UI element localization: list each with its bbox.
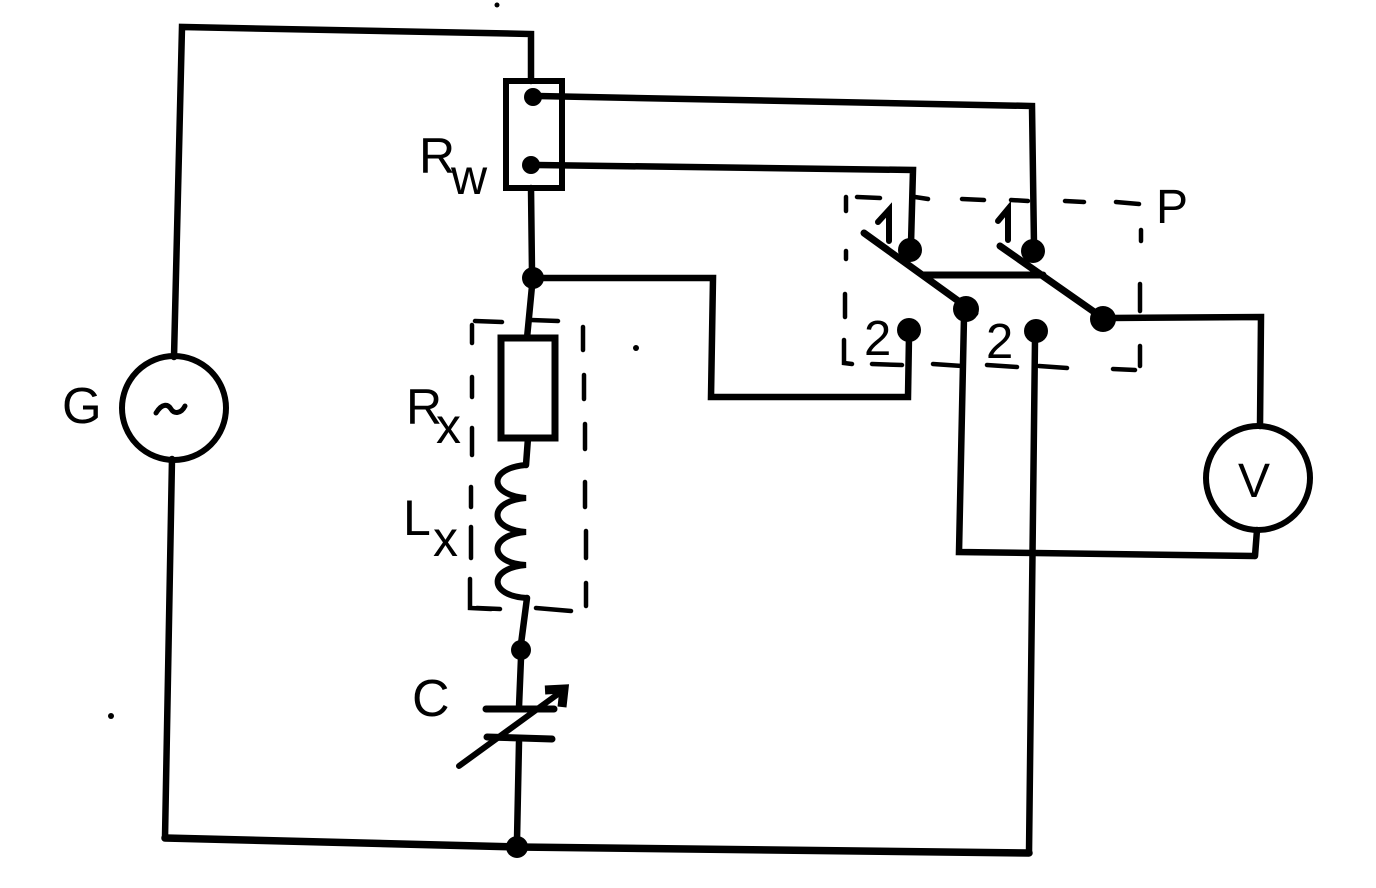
dashed box switch block P bbox=[844, 197, 1141, 370]
svg-text:V: V bbox=[1238, 455, 1270, 508]
svg-text:w: w bbox=[450, 149, 488, 205]
capacitor C bottom plate bbox=[487, 737, 552, 739]
switch S2 pin 1 label bbox=[998, 209, 1008, 240]
speck middle bbox=[633, 345, 639, 351]
speck top bbox=[495, 3, 500, 8]
voltmeter V bbox=[1206, 426, 1310, 530]
wire top loop from G to Rw bbox=[174, 27, 531, 357]
wire S1 common to V low side bbox=[959, 317, 1254, 556]
wire left side G to bottom rail bbox=[165, 459, 172, 838]
capacitor C variable arrow bbox=[459, 689, 564, 766]
svg-text:x: x bbox=[433, 511, 458, 567]
switch S2 blade bbox=[1000, 246, 1110, 323]
node B junction dot bbox=[511, 640, 531, 660]
wire Rw tap2 to switch P left pin 1 bbox=[537, 165, 913, 244]
svg-text:P: P bbox=[1156, 181, 1188, 234]
svg-text:2: 2 bbox=[986, 315, 1013, 369]
svg-text:R: R bbox=[419, 128, 455, 184]
switch S1 pin 1 label bbox=[878, 210, 889, 241]
switch S1 blade bbox=[864, 233, 975, 313]
svg-text:L: L bbox=[403, 490, 431, 546]
svg-text:2: 2 bbox=[864, 312, 891, 366]
potentiometer Rw bbox=[506, 81, 562, 188]
label G bbox=[62, 377, 102, 434]
switch S1 pin 2 label bbox=[864, 312, 891, 366]
Rw tap 1 dot bbox=[524, 88, 542, 106]
svg-text:C: C bbox=[412, 670, 450, 728]
label Lx bbox=[403, 490, 458, 567]
wire node A to switch P left pin 2 bbox=[541, 278, 909, 397]
switch S1 pin 2 dot bbox=[897, 318, 921, 342]
label C bbox=[412, 670, 450, 728]
wire Rw tap1 to switch P right pin 1 bbox=[538, 96, 1034, 245]
wire S2 pin 2 to bottom rail bbox=[1029, 340, 1035, 853]
wire Rw bottom to node A bbox=[531, 188, 532, 272]
wire capacitor C to bottom rail bbox=[517, 742, 519, 840]
bottom rail junction dot bbox=[506, 836, 528, 858]
capacitor C top plate bbox=[486, 706, 554, 713]
inductor Lx bbox=[498, 465, 528, 598]
wire Rx to Lx bbox=[526, 438, 528, 465]
switch S2 common dot bbox=[1090, 306, 1116, 332]
resistor Rx bbox=[501, 338, 555, 438]
switch S2 pin 2 label bbox=[986, 315, 1013, 369]
wire voltmeter V to low side wire bbox=[1255, 530, 1257, 556]
dashed box around Rx and Lx bbox=[470, 320, 586, 611]
svg-text:G: G bbox=[62, 377, 102, 434]
wire S2 common to voltmeter V bbox=[1110, 317, 1261, 426]
switch S1 pin 1 dot bbox=[898, 238, 922, 262]
wire node B to capacitor C bbox=[519, 658, 521, 707]
svg-text:x: x bbox=[436, 398, 461, 454]
wire node A to Rx bbox=[527, 286, 532, 338]
generator G bbox=[122, 356, 226, 460]
speck bottom left bbox=[108, 713, 114, 719]
label Rx bbox=[406, 379, 461, 454]
wire bottom rail bbox=[165, 838, 1029, 853]
Rw tap 2 dot bbox=[522, 156, 540, 174]
switch gang link bbox=[924, 272, 1043, 279]
label P bbox=[1156, 181, 1188, 234]
node A junction dot bbox=[522, 267, 544, 289]
switch S2 pin 1 dot bbox=[1021, 239, 1045, 263]
switch S2 pin 2 dot bbox=[1024, 319, 1048, 343]
wire Lx to node B bbox=[521, 598, 527, 644]
switch S1 common dot bbox=[953, 296, 979, 322]
label V bbox=[1238, 455, 1270, 508]
label Rw bbox=[419, 128, 488, 205]
